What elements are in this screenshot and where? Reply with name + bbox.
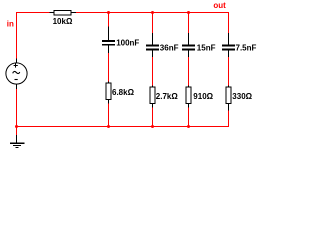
junction dot bottom branch2 [151,125,154,128]
node label out [213,1,226,10]
wire source bottom to ground rail [16,89,18,128]
wire ground stub below rail [16,126,18,136]
svg-text:7.5nF: 7.5nF [236,44,257,53]
ground GND [10,135,24,147]
svg-text:6.8kΩ: 6.8kΩ [112,88,135,97]
svg-text:910Ω: 910Ω [193,92,213,101]
capacitor C3 15nF [182,33,216,57]
junction dot top branch3 [187,11,190,14]
wire branch 1 upper segment [108,13,110,41]
svg-text:in: in [7,20,14,29]
wire branch 3 upper segment [188,13,190,46]
svg-text:2.7kΩ: 2.7kΩ [156,92,179,101]
resistor R1 10kΩ [50,11,77,26]
svg-text:15nF: 15nF [197,44,216,53]
wire branch 2 upper segment [152,13,154,46]
wire left vertical from in corner to source [16,12,18,59]
junction dot top branch1 [107,11,110,14]
junction dot bottom branch3 [187,125,190,128]
wire branch 1 lower segment [108,100,110,128]
junction dot top branch2 [151,11,154,14]
wire branch 1 middle segment [108,46,110,84]
wire top rail (in to out) [16,12,229,14]
resistor R5 330Ω [226,86,253,111]
svg-text:36nF: 36nF [160,44,179,53]
resistor R3 2.7kΩ [150,86,178,108]
svg-text:out: out [213,1,226,10]
wire branch 3 lower segment [188,104,190,128]
junction dot bottom source [15,125,18,128]
wire branch 4 middle segment [228,50,230,87]
AC source V1 [6,59,27,90]
svg-text:100nF: 100nF [116,38,139,47]
wire branch 2 middle segment [152,50,154,87]
wire branch 4 lower segment [228,104,230,128]
wire branch 4 upper segment (out corner down) [228,12,230,45]
wire branch 2 lower segment [152,104,154,128]
capacitor C4 7.5nF [222,33,257,57]
svg-text:330Ω: 330Ω [232,92,252,101]
svg-text:10kΩ: 10kΩ [53,17,73,26]
capacitor C2 36nF [146,33,179,57]
capacitor C1 100nF [102,27,139,54]
junction dot bottom branch1 [107,125,110,128]
wire branch 3 middle segment [188,50,190,87]
resistor R2 6.8kΩ [106,82,135,104]
node label in [7,20,14,29]
resistor R4 910Ω [186,86,214,108]
wire bottom rail [16,126,229,128]
